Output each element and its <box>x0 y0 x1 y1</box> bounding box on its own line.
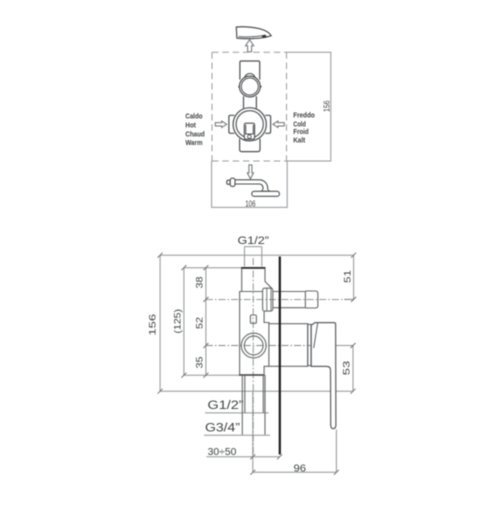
neck below nut <box>244 96 257 108</box>
svg-text:51: 51 <box>343 270 353 283</box>
left inlet tab <box>229 115 234 133</box>
svg-text:G1/2”: G1/2” <box>208 400 244 412</box>
svg-text:30÷50: 30÷50 <box>208 447 237 458</box>
outlet flange <box>263 288 273 311</box>
main cartridge outer circle <box>233 108 266 141</box>
wall line <box>279 257 281 455</box>
cold inlet arrow <box>273 121 284 127</box>
handle neck <box>280 324 311 367</box>
svg-text:Freddo: Freddo <box>293 111 315 120</box>
body bottom edge dark <box>239 374 264 376</box>
extension at body bottom <box>184 374 240 376</box>
stem bump above nut <box>245 74 256 85</box>
dim line 51 <box>344 255 354 299</box>
svg-text:38: 38 <box>195 277 205 289</box>
svg-text:Hot: Hot <box>185 121 196 130</box>
svg-text:(125): (125) <box>173 309 183 334</box>
hot inlet arrow <box>215 121 226 127</box>
bottom solid box (shower outlet zone) <box>212 161 288 207</box>
svg-text:53: 53 <box>342 361 352 375</box>
shower arm icon <box>227 178 280 196</box>
main cartridge inner circle <box>236 111 263 138</box>
centerline handle axis <box>206 345 336 347</box>
handle head and lever <box>311 323 336 429</box>
outlet cylinder <box>273 291 306 308</box>
side port outer circle <box>241 333 266 358</box>
svg-text:156: 156 <box>323 100 332 112</box>
body right profile steps <box>264 311 269 324</box>
dim line (125) <box>183 268 185 376</box>
nut inner circle <box>241 78 258 95</box>
G1/2 top bracket <box>245 247 262 267</box>
svg-text:156: 156 <box>148 314 158 336</box>
svg-text:106: 106 <box>245 198 256 208</box>
right solid box (cold side) <box>287 52 331 161</box>
top extension line <box>160 254 354 256</box>
dimension lines (light) <box>160 247 354 473</box>
lower outlet pipe G3/4 <box>242 375 265 435</box>
side port inner circle <box>244 336 263 355</box>
svg-text:G3/4”: G3/4” <box>205 423 240 435</box>
hot labels <box>185 112 205 147</box>
down arrow to shower <box>247 165 253 179</box>
dim line 53 <box>336 346 353 392</box>
30-50 dim line <box>206 456 279 458</box>
dim line 156 <box>159 255 161 391</box>
spout icon <box>236 27 271 39</box>
spout aerator dot <box>262 35 267 37</box>
svg-text:Kalt: Kalt <box>293 135 305 144</box>
cartridge stem inner <box>246 125 254 134</box>
body outline <box>239 268 318 435</box>
svg-text:Warm: Warm <box>185 138 202 147</box>
chamfer to outlet boss <box>265 282 272 289</box>
G3/4 leader line <box>204 434 270 436</box>
extension at pipe top <box>184 267 242 269</box>
pipe top edge dark <box>241 267 265 269</box>
svg-text:G1/2”: G1/2” <box>238 235 270 247</box>
outlet end cap <box>305 291 318 308</box>
extension below pipe <box>252 391 254 472</box>
lower outlet pipe G1/2 <box>245 375 263 413</box>
svg-text:52: 52 <box>195 317 205 329</box>
svg-text:35: 35 <box>195 357 205 369</box>
cartridge stem outer <box>244 123 254 139</box>
96 dim line <box>253 471 337 473</box>
nut outer circle <box>239 76 260 97</box>
valve body top port <box>240 61 260 80</box>
svg-text:96: 96 <box>294 463 307 474</box>
cold labels <box>293 111 315 145</box>
centerline vertical (pipe axis) <box>252 258 254 457</box>
centerline spout outlet axis <box>206 299 353 301</box>
up arrow to spout <box>246 40 254 52</box>
body main block <box>240 292 265 376</box>
svg-text:Chaud: Chaud <box>185 129 205 138</box>
svg-text:Caldo: Caldo <box>185 112 202 121</box>
bottom extension line <box>160 390 353 392</box>
top inlet pipe <box>242 268 265 291</box>
dim line 38 52 35 <box>205 268 207 376</box>
cartridge screw <box>248 135 252 139</box>
bottom port <box>240 139 260 152</box>
right inlet tab <box>265 115 270 133</box>
set screw <box>250 315 256 323</box>
dimension ticks <box>158 253 357 475</box>
handle face slant line <box>314 323 318 348</box>
plate dashed rectangle <box>212 52 287 161</box>
G1/2 leader line <box>205 412 269 414</box>
cartridge housing through wall <box>269 324 280 367</box>
96 extension from lever <box>335 430 337 473</box>
hex corners of nut <box>239 84 242 90</box>
